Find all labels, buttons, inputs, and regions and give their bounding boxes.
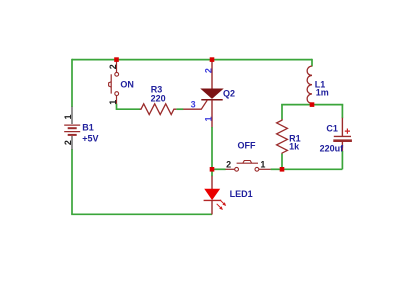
wire right bottom rail [282,168,342,170]
svg-text:1m: 1m [316,88,329,98]
wire right top rail [282,104,342,107]
switch OFF (pushbutton, horizontal) [212,168,226,170]
LED1 [211,169,213,176]
svg-text:OFF: OFF [238,141,256,151]
resistor R1 1k [281,105,283,120]
switch ON (pushbutton, vertical) [109,60,119,104]
svg-text:LED1: LED1 [230,189,253,199]
wire Q2 cathode down [211,127,213,169]
junction at ON top [114,57,119,62]
svg-text:2: 2 [226,159,231,169]
capacitor C1 [341,105,343,119]
wire left rail lower [71,149,73,214]
junction OFF left [210,167,215,172]
svg-text:+5V: +5V [82,134,98,144]
wire top rail [72,59,312,61]
wire R3 to gate [176,108,183,110]
svg-text:2: 2 [203,68,213,73]
svg-text:B1: B1 [82,123,94,133]
wire bottom rail [71,213,212,215]
svg-text:1: 1 [260,159,265,169]
svg-text:2: 2 [108,64,118,69]
resistor R3 220 [140,104,177,115]
svg-text:1: 1 [203,116,213,121]
junction OFF right [280,167,285,172]
svg-text:ON: ON [120,80,133,90]
junction at Q2 top [210,57,215,62]
svg-text:3: 3 [191,100,196,110]
battery B1 [64,107,80,150]
svg-text:1k: 1k [289,142,300,152]
svg-text:1: 1 [63,114,73,119]
wire OFF to R1 node [271,168,283,170]
wire ON to R3 [117,104,141,109]
junction L1 bottom [310,102,315,107]
SCR Q2 [183,60,223,128]
inductor L1 [311,59,313,67]
svg-text:220: 220 [151,93,166,103]
svg-text:220uf: 220uf [320,144,345,154]
svg-text:Q2: Q2 [223,89,235,99]
svg-text:C1: C1 [326,124,338,134]
wire left rail upper [71,59,73,107]
svg-text:2: 2 [63,140,73,145]
